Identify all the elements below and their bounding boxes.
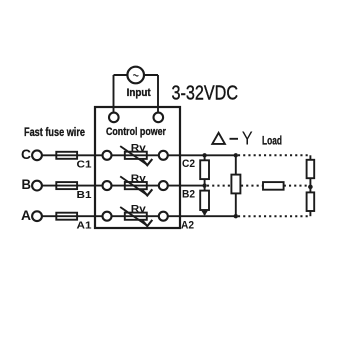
svg-text:C: C	[21, 146, 31, 162]
svg-text:Fast fuse wire: Fast fuse wire	[24, 127, 85, 139]
svg-text:A1: A1	[77, 219, 92, 231]
svg-text:Y: Y	[242, 129, 253, 149]
svg-text:B1: B1	[77, 189, 92, 201]
svg-text:3-32VDC: 3-32VDC	[172, 83, 239, 105]
svg-text:Rv: Rv	[131, 142, 146, 154]
svg-text:Load: Load	[262, 136, 282, 148]
svg-text:B: B	[22, 176, 32, 192]
svg-text:Rv: Rv	[131, 203, 146, 215]
svg-text:B2: B2	[182, 188, 195, 200]
svg-text:Input: Input	[127, 87, 151, 99]
svg-text:Control power: Control power	[106, 126, 167, 138]
svg-text:C2: C2	[182, 158, 195, 170]
svg-text:Rv: Rv	[131, 172, 146, 184]
svg-text:C1: C1	[77, 158, 92, 170]
svg-text:A2: A2	[181, 220, 194, 232]
svg-text:A: A	[21, 207, 31, 223]
